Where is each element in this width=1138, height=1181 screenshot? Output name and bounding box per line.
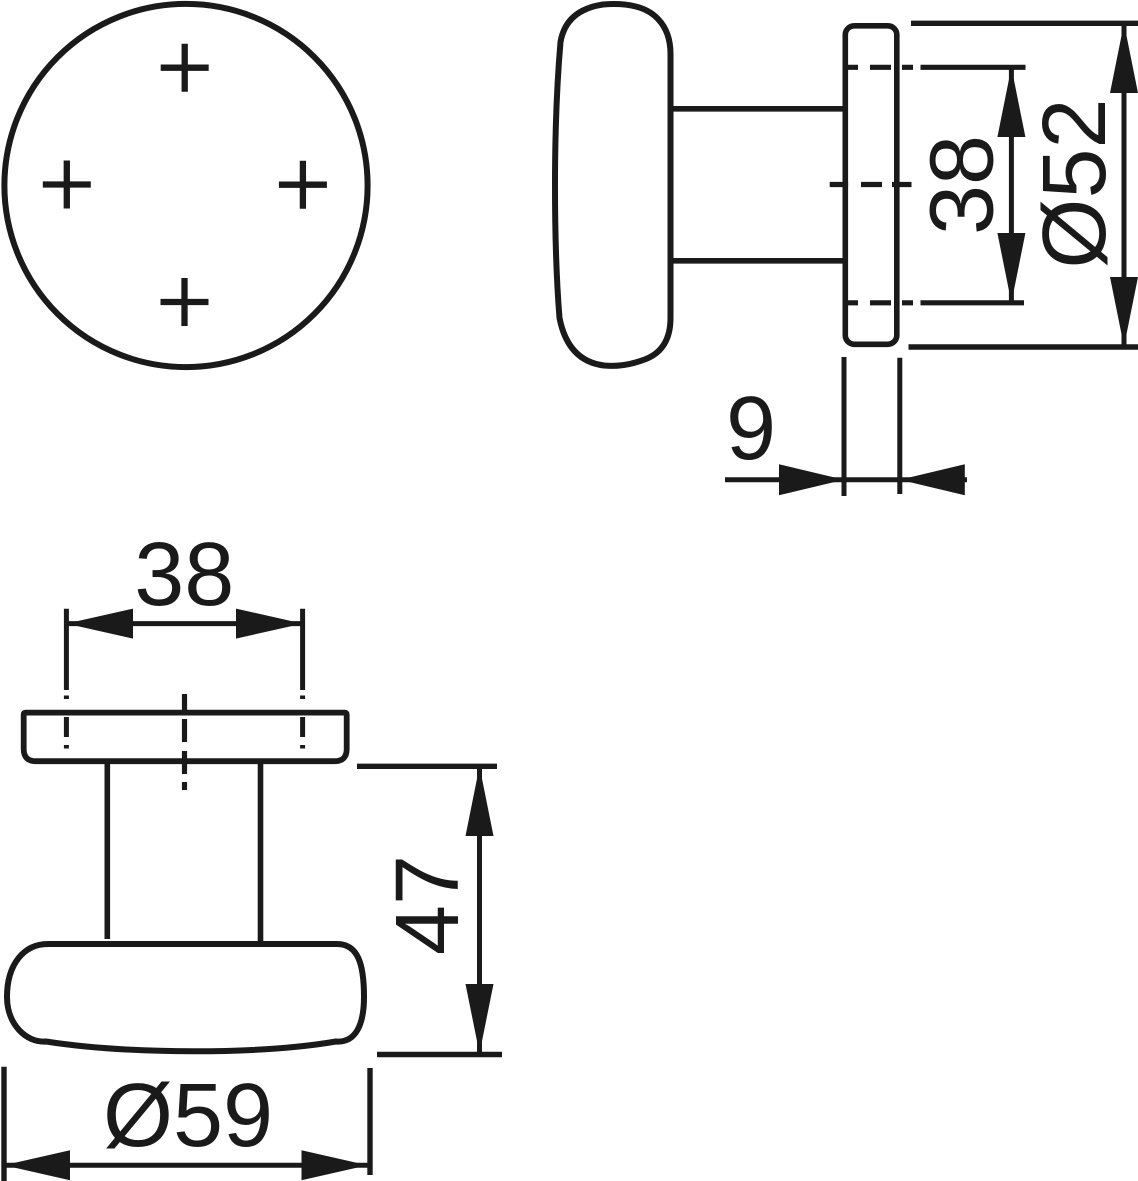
dim 47 arrow up: [466, 766, 494, 836]
dashed extension line y67: [845, 65, 1026, 70]
stem top line: [669, 106, 845, 112]
dim Ø59 arrow left: [4, 1150, 70, 1180]
dim Ø59 arrow right: [302, 1150, 368, 1180]
dim 38 line: [1009, 67, 1014, 302]
svg-text:38: 38: [134, 525, 234, 625]
dim 9 arrow right: [900, 464, 965, 495]
dim 38 arrow up: [997, 67, 1025, 137]
dim 38b arrow left: [66, 609, 133, 639]
ext line 47 bottom: [377, 1052, 502, 1057]
screw cross left: [43, 161, 91, 209]
svg-text:Ø59: Ø59: [103, 1066, 273, 1166]
ext line 47 top: [357, 764, 497, 769]
dim 38b line: [66, 621, 302, 626]
dim 38 arrow down: [997, 233, 1025, 303]
knob head profile: [555, 4, 671, 366]
dim 47 line: [477, 766, 482, 1053]
dashed extension line y303: [845, 300, 1024, 305]
ext line Ø52 bottom: [909, 344, 1138, 349]
dim 9 arrow left: [779, 464, 844, 495]
stem right line: [258, 764, 264, 941]
ext line Ø59 right: [367, 1068, 372, 1175]
ext line Ø52 top: [911, 21, 1138, 26]
svg-text:9: 9: [726, 379, 776, 479]
dim Ø59 line: [4, 1163, 368, 1168]
center line tick y184.5: [830, 182, 912, 187]
knob bottom view: [7, 944, 364, 1051]
dim Ø52 arrow down: [1110, 277, 1138, 347]
ext line 9 left: [842, 357, 847, 496]
ext line 38 left with centerline: [64, 609, 69, 690]
ext line Ø59 left: [1, 1067, 6, 1181]
dim 47 arrow down: [466, 984, 494, 1054]
dim 38b arrow right: [236, 609, 303, 639]
svg-text:Ø52: Ø52: [1025, 98, 1125, 268]
rose side rect: [845, 26, 897, 345]
dim 9 line: [725, 477, 967, 482]
dim Ø52 arrow up: [1110, 23, 1138, 93]
knob face outline circle: [4, 4, 367, 367]
svg-text:47: 47: [378, 855, 478, 955]
stem bottom line: [669, 258, 845, 264]
rose bottom view: [24, 713, 347, 762]
screw cross bottom: [161, 278, 209, 326]
ext line 38 right with centerline: [300, 609, 305, 690]
stem left line: [105, 764, 111, 939]
svg-text:38: 38: [913, 135, 1013, 235]
screw cross top: [161, 44, 209, 92]
ext line 9 right: [897, 358, 902, 494]
center line vertical: [182, 694, 187, 790]
dim Ø52 line: [1122, 23, 1127, 346]
screw cross right: [279, 161, 327, 209]
